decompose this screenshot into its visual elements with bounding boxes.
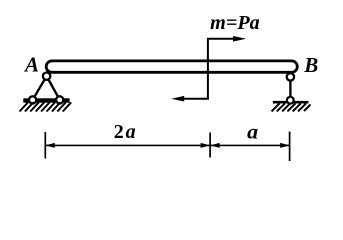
pin support at A: apex pin circle xyxy=(43,73,50,80)
ground hatching at A xyxy=(20,102,72,111)
dimension arrow mid-left (points right) xyxy=(201,143,211,148)
dimension tick middle xyxy=(209,133,211,158)
moment couple: top arm wire xyxy=(207,38,235,40)
roller support at B: bottom circle xyxy=(287,97,294,104)
pin support at A: base bar xyxy=(23,98,69,102)
dimension line xyxy=(45,144,289,146)
svg-text:2a: 2a xyxy=(114,121,136,143)
pin support at A: left base circle xyxy=(29,96,36,103)
ground hatching at B xyxy=(272,103,311,111)
dimension arrow left (points left) xyxy=(45,143,55,148)
moment couple: top arrowhead xyxy=(233,36,246,42)
dimension tick right xyxy=(289,132,291,162)
svg-text:B: B xyxy=(303,53,318,77)
roller link support at B: vertical link xyxy=(289,77,291,100)
svg-text:a: a xyxy=(247,119,258,143)
pin support at A: right base circle xyxy=(56,96,63,103)
dimension tick left xyxy=(44,132,46,159)
beam AB xyxy=(46,61,297,72)
svg-text:m=Pa: m=Pa xyxy=(210,12,259,34)
dimension arrow right (points right) xyxy=(280,143,290,148)
roller support at B: ground bar xyxy=(273,101,309,104)
moment couple: bottom arm wire xyxy=(182,98,209,100)
pin support at A: right leg xyxy=(47,76,60,100)
moment couple: vertical line xyxy=(207,39,209,99)
moment couple: bottom arrowhead xyxy=(171,96,184,102)
roller support at B: pin circle xyxy=(287,73,294,80)
pin support at A: left leg xyxy=(33,76,47,100)
svg-text:A: A xyxy=(23,52,39,76)
dimension arrow mid-right (points left) xyxy=(210,143,220,148)
